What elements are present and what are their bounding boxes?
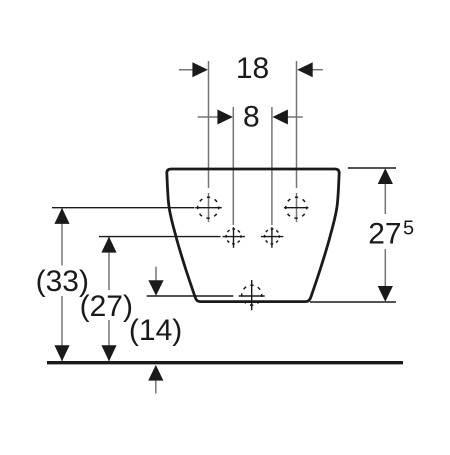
svg-text:18: 18 xyxy=(236,52,269,85)
arrowhead 8 left xyxy=(217,110,233,125)
mounting hole C middle-left (233.5,236.4) xyxy=(223,227,245,248)
mounting hole A top-left (208.2,207.7) xyxy=(195,197,222,218)
bidet outline xyxy=(167,169,339,302)
arrowhead 27.5 top xyxy=(378,168,393,184)
arrowhead (27) bottom xyxy=(101,345,116,361)
mounting hole D middle-right (271.9,236.4) xyxy=(261,227,283,248)
arrowhead 18 right xyxy=(297,62,313,77)
extension line V4 (18 right, x=296.5) xyxy=(296,61,298,222)
mounting hole E bottom-center (251.7,295.2) xyxy=(239,280,265,310)
leader line to hole C (y=236.6) xyxy=(99,236,221,238)
dimension line 18 tails xyxy=(179,69,323,71)
extension line right top (y=168) xyxy=(348,167,396,169)
extension line V3 (8 right, x=271.9) xyxy=(271,107,273,225)
arrowhead 18 left xyxy=(192,62,208,77)
extension line right bottom (y=302) xyxy=(310,301,396,303)
dimension line 8 tails xyxy=(198,116,303,118)
dimension line (33) vertical x=62 xyxy=(61,208,63,360)
arrowhead 8 right xyxy=(272,110,288,125)
dimension line (14) vertical x=156 xyxy=(155,267,157,282)
arrowhead (27) top xyxy=(101,237,116,253)
arrowhead (33) top xyxy=(54,208,69,224)
extension line V1 (18 left, x=208.5) xyxy=(208,61,210,222)
svg-text:(27): (27) xyxy=(80,290,133,323)
leader line to hole A (y=207.7) xyxy=(52,207,195,209)
extension line V2 (8 left, x=233.3) xyxy=(232,107,234,225)
svg-text:8: 8 xyxy=(243,101,260,134)
leader line to hole E (y=296) xyxy=(147,295,234,297)
arrowhead (33) bottom xyxy=(54,345,69,361)
arrowhead 27.5 bottom xyxy=(378,286,393,302)
svg-text:5: 5 xyxy=(403,218,414,240)
floor reference arrow stem below floor xyxy=(155,380,157,394)
dimension line (27) vertical x=109 xyxy=(108,237,110,361)
svg-text:(14): (14) xyxy=(129,314,182,347)
svg-text:27: 27 xyxy=(368,218,401,251)
arrowhead (14) down xyxy=(148,280,163,296)
floor line xyxy=(47,361,403,364)
arrowhead floor reference up xyxy=(148,365,163,381)
mounting hole B top-right (296.2,207.7) xyxy=(284,197,309,218)
dimension line 27.5 vertical x=385.3 xyxy=(384,183,386,287)
